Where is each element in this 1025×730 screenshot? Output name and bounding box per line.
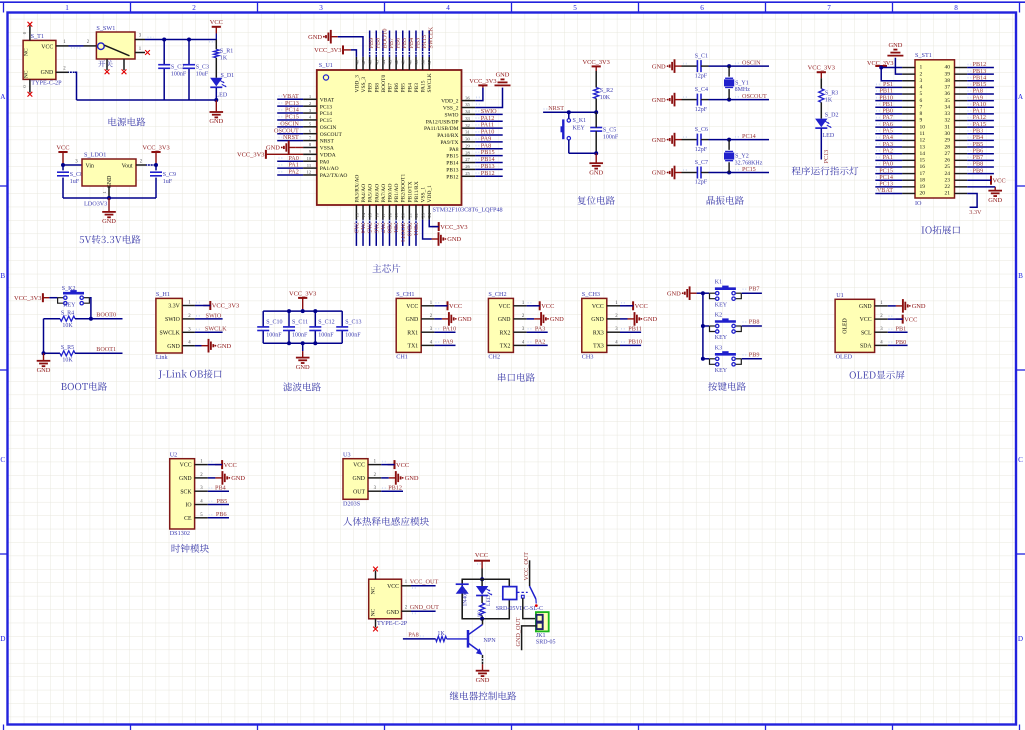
wire and net label PB6 <box>208 511 229 518</box>
wire pin2 to VCC <box>888 316 903 319</box>
wire and net label PA3 <box>353 220 360 246</box>
svg-text:43: 43 <box>388 59 393 64</box>
wire and net label PB9 <box>742 351 762 359</box>
svg-text:S_R4: S_R4 <box>61 310 74 316</box>
power port VCC_3V3 at VDD_2 pin 36 <box>469 78 496 88</box>
wire and net label PB9 <box>368 31 375 57</box>
svg-text:17: 17 <box>381 212 386 217</box>
svg-text:100nF: 100nF <box>603 134 619 140</box>
svg-text:PA0: PA0 <box>320 159 330 165</box>
svg-text:PA3: PA3 <box>535 325 545 332</box>
svg-text:PA2: PA2 <box>288 169 298 176</box>
pin 20 of ST1 <box>902 192 915 194</box>
svg-text:PB9: PB9 <box>749 351 760 358</box>
svg-text:GND: GND <box>591 317 604 323</box>
svg-text:26: 26 <box>945 158 951 164</box>
power port VCC_3V3 jlink <box>203 301 239 310</box>
svg-text:42: 42 <box>394 59 399 64</box>
wire and net label OSCOUT <box>274 127 303 134</box>
wire and capacitor S_C4 12pF <box>682 87 709 113</box>
wire and net label PB10 <box>875 94 902 101</box>
svg-text:CH2: CH2 <box>488 353 500 360</box>
wire and net label PA9 <box>475 135 503 142</box>
svg-text:S_C12: S_C12 <box>318 319 334 325</box>
pin 1 of U1 <box>303 94 317 99</box>
resistor S_R1 1K <box>214 48 234 61</box>
wire and net label PB12 <box>475 170 503 177</box>
svg-text:LED: LED <box>216 92 228 98</box>
svg-text:1N4007: 1N4007 <box>462 588 468 606</box>
wire GND to pin2 <box>895 58 902 74</box>
svg-text:32: 32 <box>465 123 470 128</box>
pin 25 of ST1 <box>955 166 968 168</box>
resistor S_R4 10K <box>60 310 75 329</box>
pin 1 of U2 <box>195 460 208 465</box>
svg-text:25: 25 <box>465 171 470 176</box>
svg-text:GND: GND <box>652 137 666 144</box>
junction <box>287 341 291 345</box>
pin 25 of U1 <box>462 171 476 176</box>
junction <box>567 110 571 114</box>
svg-text:40: 40 <box>407 59 412 64</box>
svg-text:S_U1: S_U1 <box>319 62 333 69</box>
svg-text:S_R2: S_R2 <box>600 88 613 94</box>
svg-text:OSCOUT: OSCOUT <box>742 93 767 100</box>
wire and net label PA8 <box>475 142 503 149</box>
wire VCC_3V3 to VDD_3 <box>351 50 357 57</box>
svg-text:GND_OUT: GND_OUT <box>410 604 439 611</box>
svg-text:PA10/RX: PA10/RX <box>437 133 458 139</box>
svg-text:S_SW1: S_SW1 <box>96 25 115 32</box>
pin 2 of S_CH3 <box>607 314 620 319</box>
pin 13 of ST1 <box>902 146 915 148</box>
ground GND for S_C1 <box>652 59 682 73</box>
junction <box>727 64 731 68</box>
svg-text:5: 5 <box>920 91 923 97</box>
title OLED显示屏 <box>850 371 905 380</box>
svg-text:S_T1: S_T1 <box>31 33 44 40</box>
svg-text:1uF: 1uF <box>70 179 80 185</box>
power port VCC_3V3 output <box>142 144 169 165</box>
svg-text:PA7/AO: PA7/AO <box>381 184 387 203</box>
wire and net label PB4 <box>967 134 994 141</box>
pin 6 of ST1 <box>902 100 915 102</box>
power port VCC at ST1 pin23 <box>984 176 1006 185</box>
pin 8 of ST1 <box>902 113 915 115</box>
wire C9 to ground rail <box>155 178 157 198</box>
ground GND relay <box>476 664 490 684</box>
pin 4 of U2 <box>195 500 208 505</box>
junction <box>727 171 731 175</box>
svg-text:1: 1 <box>920 65 923 71</box>
junction <box>313 309 317 313</box>
wire relay common <box>529 560 531 586</box>
svg-text:OUT: OUT <box>353 489 365 495</box>
wire and net label PB15 <box>967 81 994 88</box>
svg-text:S_R3: S_R3 <box>825 90 838 96</box>
svg-text:14: 14 <box>361 212 366 217</box>
svg-text:10uF: 10uF <box>196 72 209 78</box>
svg-text:S_C6: S_C6 <box>695 127 708 133</box>
svg-text:VCC_OUT: VCC_OUT <box>523 552 530 581</box>
svg-text:PA11/USB/DM: PA11/USB/DM <box>424 126 459 132</box>
pin 26 of U1 <box>462 164 476 169</box>
pin 32 of ST1 <box>955 120 968 122</box>
svg-text:K2: K2 <box>715 313 722 319</box>
ground GND of LDO <box>102 198 116 225</box>
svg-text:K3: K3 <box>715 345 722 351</box>
svg-text:38: 38 <box>945 78 951 84</box>
junction <box>701 357 705 361</box>
wire filter top rail <box>263 310 342 312</box>
wire reset ground rail <box>569 152 596 154</box>
pin 3 of U3 <box>368 486 381 491</box>
svg-text:RX1: RX1 <box>407 330 418 336</box>
pin 43 of U1 <box>388 57 393 70</box>
wire PC15 to junction <box>709 172 770 174</box>
pin 1 of S_CH2 <box>513 301 526 306</box>
power port VCC_3V3 reset <box>583 59 610 71</box>
svg-text:SWCLK: SWCLK <box>427 73 433 92</box>
svg-text:SCL: SCL <box>861 330 872 336</box>
svg-text:GND: GND <box>406 317 419 323</box>
svg-text:22: 22 <box>945 184 951 190</box>
svg-text:GND: GND <box>217 343 231 350</box>
svg-text:SWIO: SWIO <box>165 317 180 323</box>
svg-text:15: 15 <box>368 212 373 217</box>
pin 27 of U1 <box>462 157 476 162</box>
svg-text:GND: GND <box>589 169 603 176</box>
wire R5 left lead <box>44 352 61 354</box>
pin 5 of ST1 <box>902 93 915 95</box>
pin VCC of output connector <box>402 580 412 586</box>
svg-text:PB3: PB3 <box>414 83 420 93</box>
power port VCC_3V3 at VDDA pin 9 <box>237 150 303 159</box>
pin 14 of ST1 <box>902 153 915 155</box>
svg-text:2: 2 <box>192 4 196 12</box>
svg-text:KEY: KEY <box>715 302 728 308</box>
wire collector to relay loop <box>482 619 484 625</box>
svg-text:7: 7 <box>920 104 923 110</box>
pin 33 of U1 <box>462 116 476 121</box>
wire and net label PA12 <box>475 115 503 122</box>
svg-text:C: C <box>1018 456 1023 464</box>
junction <box>594 151 598 155</box>
svg-text:GND: GND <box>41 70 54 76</box>
svg-text:PC13: PC13 <box>823 150 830 164</box>
svg-text:BOOT0: BOOT0 <box>96 311 116 318</box>
ground GND oled <box>888 299 926 313</box>
wire and net label PB15 <box>475 149 503 156</box>
svg-text:PA15: PA15 <box>421 80 427 92</box>
power port VCC relay <box>474 552 490 579</box>
button S_K1 KEY <box>561 118 587 140</box>
pin 1 of U3 <box>368 460 381 465</box>
svg-text:19: 19 <box>394 212 399 217</box>
svg-text:36: 36 <box>465 95 470 100</box>
wire and net label PB10 <box>405 220 412 246</box>
svg-text:VCC: VCC <box>406 304 418 310</box>
pin 30 of ST1 <box>955 133 968 135</box>
svg-text:1K: 1K <box>437 631 445 637</box>
svg-text:CH1: CH1 <box>396 353 408 360</box>
svg-text:S_H1: S_H1 <box>156 291 170 298</box>
svg-text:VCC: VCC <box>387 584 399 590</box>
ground GND S_CH1 <box>434 312 472 326</box>
svg-text:STM32F103C8T6_LQFP48: STM32F103C8T6_LQFP48 <box>433 207 503 214</box>
svg-text:PB10/TX: PB10/TX <box>407 181 413 202</box>
connector JK1 SRD-05 <box>536 612 556 646</box>
ground GND boot <box>37 353 51 374</box>
svg-text:GND: GND <box>102 218 116 225</box>
wire and net label PB3 <box>967 128 994 135</box>
pin 34 of U1 <box>462 109 476 114</box>
svg-text:10: 10 <box>307 156 312 161</box>
svg-text:SWIO: SWIO <box>206 312 222 319</box>
wire and net label BOOT1 <box>399 220 406 246</box>
svg-text:GND: GND <box>643 316 657 323</box>
ground GND jlink <box>195 339 232 353</box>
svg-text:GND: GND <box>107 176 113 189</box>
pin 2 of S_CH1 <box>421 314 434 319</box>
pin 14 of U1 <box>361 205 366 220</box>
svg-text:S_C7: S_C7 <box>695 160 708 166</box>
pin 20 of U1 <box>401 205 406 220</box>
wire and net label PB7 <box>388 31 395 57</box>
svg-text:23: 23 <box>945 177 951 183</box>
pin 1 of OLED <box>875 301 888 306</box>
wire and net label PC15 <box>875 167 902 174</box>
pin top NC with X <box>373 567 378 580</box>
power port VCC clock <box>215 460 237 469</box>
capacitor S_C9 1uF <box>150 172 176 185</box>
wire and net label NRST <box>277 134 303 141</box>
title 时钟模块 <box>172 544 209 553</box>
svg-text:TYPE-C-2P: TYPE-C-2P <box>377 620 408 627</box>
pin 22 of U1 <box>414 205 419 220</box>
svg-text:S_K2: S_K2 <box>62 286 76 292</box>
pin 0 bottom NC of S_T1 with no-connect X <box>22 79 33 96</box>
junction <box>727 138 731 142</box>
ground GND at VSS_2 pin 35 <box>495 72 511 86</box>
junction <box>701 324 705 328</box>
svg-text:U2: U2 <box>170 451 178 458</box>
pin 3 of U1 <box>303 108 317 113</box>
wire and net label PB8 <box>375 31 382 57</box>
wire VSS_2 to GND <box>475 88 502 108</box>
pin bottom NC with X <box>373 619 378 632</box>
net label VCC_OUT at relay switch <box>523 552 530 581</box>
svg-text:GND: GND <box>667 290 681 297</box>
pin 16 of ST1 <box>902 166 915 168</box>
wire and net label PA0 <box>875 161 902 168</box>
svg-text:1uF: 1uF <box>163 179 173 185</box>
svg-text:SWIO: SWIO <box>444 112 458 118</box>
net label OSCIN <box>735 60 761 67</box>
wire and net label PA2 <box>875 147 902 154</box>
svg-text:PA2: PA2 <box>535 339 545 346</box>
svg-text:29: 29 <box>465 143 470 148</box>
svg-text:2: 2 <box>920 71 923 77</box>
svg-text:37: 37 <box>945 85 951 91</box>
pin 40 of ST1 <box>955 67 968 69</box>
wire and net label PB11 <box>620 325 642 332</box>
svg-text:OSCIN: OSCIN <box>320 125 337 131</box>
wire and net label PA12 <box>967 114 994 121</box>
switch label 开关 <box>98 60 112 67</box>
svg-text:34: 34 <box>465 109 470 114</box>
wire and net label PA8 <box>967 88 994 95</box>
svg-text:GND: GND <box>550 316 564 323</box>
svg-text:GND: GND <box>498 317 511 323</box>
net label PC15 <box>735 166 756 173</box>
wire key bottom to ground rail <box>568 140 570 153</box>
svg-text:NC: NC <box>371 586 377 594</box>
svg-text:VCC_3V3: VCC_3V3 <box>142 144 169 151</box>
svg-text:10K: 10K <box>62 323 73 329</box>
svg-text:CE: CE <box>184 516 192 522</box>
svg-text:LDO3V3: LDO3V3 <box>84 201 107 208</box>
wire and net label PA6 <box>372 220 379 246</box>
wire and net label PB13 <box>967 68 994 75</box>
svg-text:8: 8 <box>920 111 923 117</box>
svg-text:A: A <box>1018 93 1024 101</box>
svg-text:VCC: VCC <box>498 304 510 310</box>
svg-text:33: 33 <box>465 116 470 121</box>
wire and net label PB14 <box>967 74 994 81</box>
wire and net label SWIO <box>475 108 503 115</box>
svg-text:TX1: TX1 <box>408 344 419 350</box>
svg-text:GND: GND <box>209 118 223 125</box>
svg-text:PB5: PB5 <box>217 498 228 505</box>
IC U2 DS1302 body <box>170 451 195 537</box>
power port VCC_3V3 indicator <box>808 65 835 79</box>
wire and net label PB7 <box>967 154 994 161</box>
svg-text:SWCLK: SWCLK <box>160 330 181 336</box>
svg-text:PA9/TX: PA9/TX <box>440 140 458 146</box>
svg-text:PC13: PC13 <box>320 104 332 110</box>
svg-text:PB6: PB6 <box>216 511 227 518</box>
svg-text:7: 7 <box>827 4 831 12</box>
svg-text:PB11/RX: PB11/RX <box>414 181 420 202</box>
svg-text:PB15: PB15 <box>446 154 458 160</box>
svg-text:KEY: KEY <box>63 302 76 308</box>
pin 41 of U1 <box>401 57 406 70</box>
wire and net label PB4 <box>208 485 229 492</box>
pin 2 of U1 <box>303 101 317 106</box>
svg-text:LED: LED <box>486 595 492 606</box>
pin 1 GND of LDO1 <box>102 186 109 198</box>
pin 17 of U1 <box>381 205 386 220</box>
svg-text:PB8: PB8 <box>749 319 760 326</box>
svg-text:A: A <box>0 93 6 101</box>
svg-text:VCC: VCC <box>541 303 554 310</box>
wire left rail down <box>43 319 45 354</box>
IC S_U1 STM32F103C8T6_LQFP48 body <box>317 62 503 213</box>
wire VCC_3V3 to pins 1 and 3 <box>879 66 902 81</box>
pin 13 of U1 <box>354 205 359 220</box>
wire and capacitor S_C7 12pF <box>682 160 709 186</box>
svg-text:VCC: VCC <box>449 303 462 310</box>
svg-text:PB7: PB7 <box>749 286 760 293</box>
svg-text:14: 14 <box>920 151 926 157</box>
IC U3 D203S body <box>343 451 368 507</box>
svg-text:VCC: VCC <box>56 144 69 151</box>
ground GND at ST1 pin2 <box>887 42 903 56</box>
svg-text:NRST: NRST <box>320 139 335 145</box>
svg-text:VDD_3: VDD_3 <box>354 75 360 93</box>
svg-text:27: 27 <box>945 151 951 157</box>
connector S_H1 J-Link body <box>156 291 182 361</box>
wire C8 down to rail <box>62 178 64 198</box>
pin 2 of ST1 <box>902 73 915 75</box>
capacitor S_C5 100nF <box>590 127 619 140</box>
wire T1 GND down to rail <box>69 72 77 100</box>
wire and net label SWCLK <box>195 326 227 333</box>
svg-text:GND: GND <box>266 145 280 152</box>
pin 37 of ST1 <box>955 86 968 88</box>
capacitor S_C3 10uF <box>183 65 209 78</box>
wire and net label PB13 <box>475 163 503 170</box>
wire and net label PC14 <box>875 174 902 181</box>
svg-text:4: 4 <box>920 85 923 91</box>
resistor 1K under LED <box>477 596 485 619</box>
pin 1 of S_CH1 <box>421 301 434 306</box>
pin 35 of U1 <box>462 102 476 107</box>
wire VCC_3V3 to R2 <box>595 71 597 88</box>
switch S_SW1 <box>96 25 135 59</box>
net label NRST and wire <box>543 105 596 112</box>
pin 2 of U2 <box>195 473 208 478</box>
svg-text:13: 13 <box>354 212 359 217</box>
wire OSCOUT to junction <box>709 99 770 101</box>
wire key top to NRST rail <box>568 112 570 119</box>
svg-text:TX2: TX2 <box>500 344 511 350</box>
pin 45 of U1 <box>374 57 379 70</box>
svg-text:30: 30 <box>945 131 951 137</box>
power port VCC for LDO <box>56 144 69 165</box>
ground GND for S_C7 <box>652 166 682 180</box>
svg-text:PA2/TX/AO: PA2/TX/AO <box>320 173 348 179</box>
pin 17 of ST1 <box>902 173 915 175</box>
svg-text:PB0/AO: PB0/AO <box>388 184 394 203</box>
svg-text:20: 20 <box>920 191 926 197</box>
svg-text:16: 16 <box>920 164 926 170</box>
power port VCC <box>210 19 223 39</box>
wire VCC_3V3 to key <box>43 297 58 299</box>
wire and net label GND_OUT <box>410 604 439 614</box>
svg-text:Link: Link <box>156 354 169 361</box>
svg-text:1K: 1K <box>825 97 833 103</box>
svg-text:19: 19 <box>920 184 926 190</box>
ground GND at VSSA pin 8 <box>266 141 303 155</box>
wire and net label PB6 <box>967 147 994 154</box>
wire and net label BOOT0 <box>381 29 388 57</box>
power port VCC_3V3 at ST1 pin1 <box>867 60 893 68</box>
wire and net label PB4 <box>408 31 415 57</box>
ground GND of power circuit <box>209 100 223 125</box>
wire and net label PA1 <box>875 154 902 161</box>
pin 29 of U1 <box>462 143 476 148</box>
wire and net label PB6 <box>395 31 402 57</box>
wire and net label PB0 <box>888 339 908 346</box>
pin 2 of S_SW1 <box>84 40 97 46</box>
wire and capacitor S_C1 12pF <box>682 54 709 80</box>
net label PA8 and base wire <box>403 632 436 639</box>
wire and net label PC15 <box>277 114 303 121</box>
svg-text:PB14: PB14 <box>446 161 458 167</box>
power port VCC S_CH1 <box>441 301 463 310</box>
